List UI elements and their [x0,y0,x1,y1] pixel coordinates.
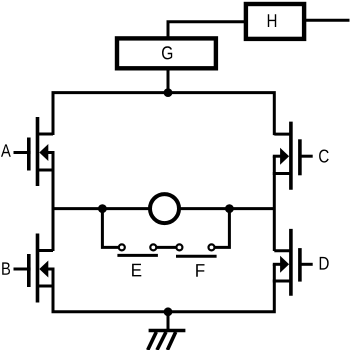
wire: switch E to switch F [156,246,176,249]
wire: right conductor C source to D drain [273,156,276,251]
wire: top rail with drain risers [53,93,274,136]
wire: left conductor A source to B drain [52,153,55,252]
wire: G top to H left [168,22,246,38]
switch F [176,244,217,276]
transistor B [2,234,54,303]
wire: H right to edge [304,19,350,22]
block H [246,4,304,39]
transistor C [273,122,329,190]
wire: middle rail left segment [53,207,150,210]
junction: right motor node [225,204,234,213]
wire: switch F to right node [215,209,230,248]
ground [148,312,186,350]
junction: left motor node [98,204,107,213]
switch E [117,244,157,276]
transistor D [273,229,329,296]
junction: G output on top rail [164,88,173,97]
wire: G bottom riser to top rail [167,68,170,94]
wire: middle rail right segment [179,207,274,210]
wire: bottom rail with source drops [53,264,274,312]
junction: ground node on bottom rail [164,307,173,316]
motor M [150,194,179,223]
block G [117,38,216,68]
transistor A [1,117,55,186]
wire: left node drop to switch E [102,209,118,248]
